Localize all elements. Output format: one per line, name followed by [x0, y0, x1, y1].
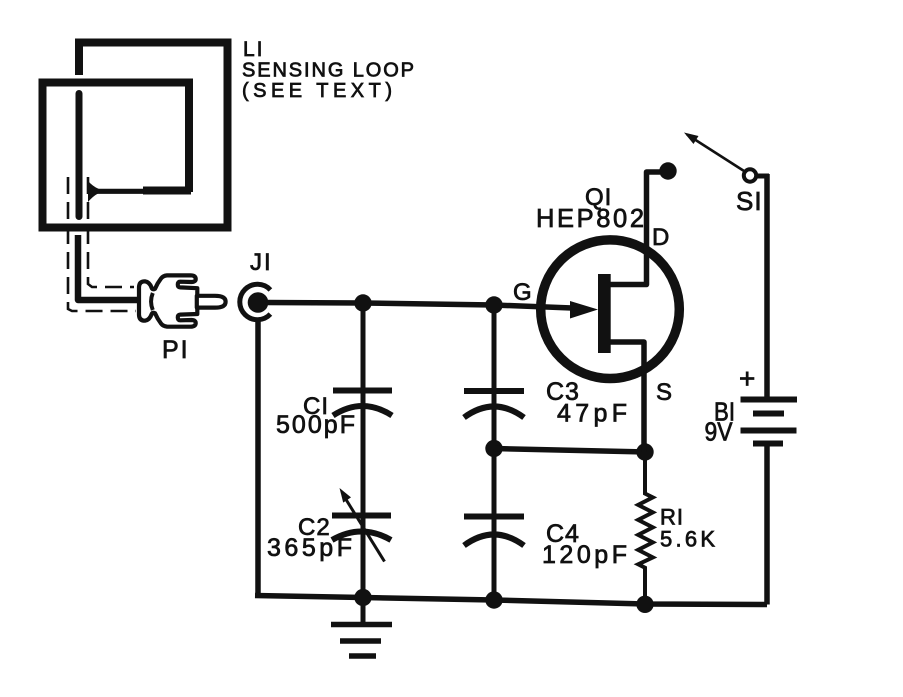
- transistor Q1 source lead: [609, 342, 644, 452]
- node junction bus below R1: [636, 596, 653, 613]
- gate arrowhead: [570, 301, 598, 319]
- wire coax shield left dashed: [68, 177, 136, 311]
- node junction top C3: [485, 296, 502, 313]
- svg-text:PI: PI: [162, 336, 190, 364]
- switch S1 arrowhead: [684, 133, 699, 145]
- capacitor C2 curved plate: [332, 532, 391, 541]
- capacitor C3 curved plate: [464, 407, 524, 418]
- wire bottom bus: [255, 596, 767, 605]
- wire battery top: [764, 174, 770, 397]
- svg-text:5.6K: 5.6K: [660, 527, 715, 552]
- svg-text:G: G: [513, 279, 532, 306]
- capacitor C3 stem (continuous): [492, 305, 497, 600]
- resistor R1 zigzag: [638, 452, 653, 604]
- transistor Q1 circle: [541, 240, 680, 379]
- connector P1 pin: [197, 296, 226, 308]
- svg-text:JI: JI: [250, 249, 273, 276]
- svg-text:SENSING LOOP: SENSING LOOP: [242, 60, 414, 82]
- node junction R1 top: [636, 443, 653, 460]
- battery B1 plate long 2: [741, 428, 797, 434]
- node drain top junction dot: [659, 162, 676, 179]
- svg-text:500pF: 500pF: [276, 411, 355, 439]
- capacitor C1 curved plate: [333, 406, 392, 416]
- wire battery bottom: [764, 444, 770, 605]
- node junction top C1: [354, 294, 371, 311]
- node junction below C3: [485, 440, 502, 457]
- inductor L1 inner bottom edge thin part: [97, 189, 145, 194]
- svg-text:SI: SI: [736, 186, 763, 216]
- jack J1 center dot: [248, 292, 269, 313]
- capacitor C4 flat plate: [464, 514, 524, 520]
- ground bar 3: [349, 653, 376, 659]
- capacitor C4 curved plate: [464, 535, 524, 546]
- wire coax shield right dashed: [88, 177, 134, 287]
- node shield funnel termination: [88, 181, 99, 202]
- svg-text:365pF: 365pF: [267, 534, 352, 562]
- capacitor C2 flat plate: [332, 513, 391, 519]
- inductor L1 inner bottom edge: [143, 187, 191, 195]
- capacitor C1 flat plate: [333, 388, 392, 394]
- svg-text:(SEE TEXT): (SEE TEXT): [242, 80, 392, 102]
- ground bar 1: [331, 622, 392, 628]
- wire coax center conductor to plug: [78, 235, 141, 300]
- ground bar 2: [340, 638, 381, 644]
- transistor Q1 drain lead: [609, 172, 660, 285]
- capacitor C3 flat plate: [464, 388, 524, 394]
- capacitor C2 variable arrow: [346, 500, 385, 562]
- battery B1 plate short 2: [753, 441, 783, 447]
- inductor L1 sensing loop outer turn: [43, 43, 228, 228]
- switch S1 terminal circle: [744, 169, 756, 181]
- battery B1 plate long 1: [741, 397, 798, 403]
- jack J1 ring: [240, 284, 271, 319]
- capacitor C1 stem (continuous): [361, 303, 366, 598]
- node junction bus below C4: [485, 591, 502, 608]
- wire S1 to battery stub: [757, 174, 769, 179]
- inductor L1 inner feed conductor: [76, 94, 83, 217]
- connector P1 phono plug body: [139, 275, 197, 326]
- svg-text:120pF: 120pF: [542, 541, 627, 569]
- svg-text:D: D: [652, 224, 669, 251]
- wire left vertical from J1: [255, 319, 261, 596]
- ground stem: [361, 598, 366, 625]
- svg-text:S: S: [656, 379, 672, 406]
- svg-text:LI: LI: [243, 38, 265, 61]
- wire C3 junction to R1: [494, 449, 645, 453]
- transistor Q1 channel bar: [598, 274, 611, 353]
- battery B1 plate short 1: [753, 411, 784, 417]
- node junction bus below C2: [354, 589, 371, 606]
- svg-text:+: +: [739, 363, 755, 394]
- svg-text:9V: 9V: [705, 417, 734, 447]
- connector P1 inner arc: [151, 293, 153, 310]
- switch S1 lever: [687, 135, 744, 172]
- wire gate bus J1 to Q1: [266, 303, 572, 309]
